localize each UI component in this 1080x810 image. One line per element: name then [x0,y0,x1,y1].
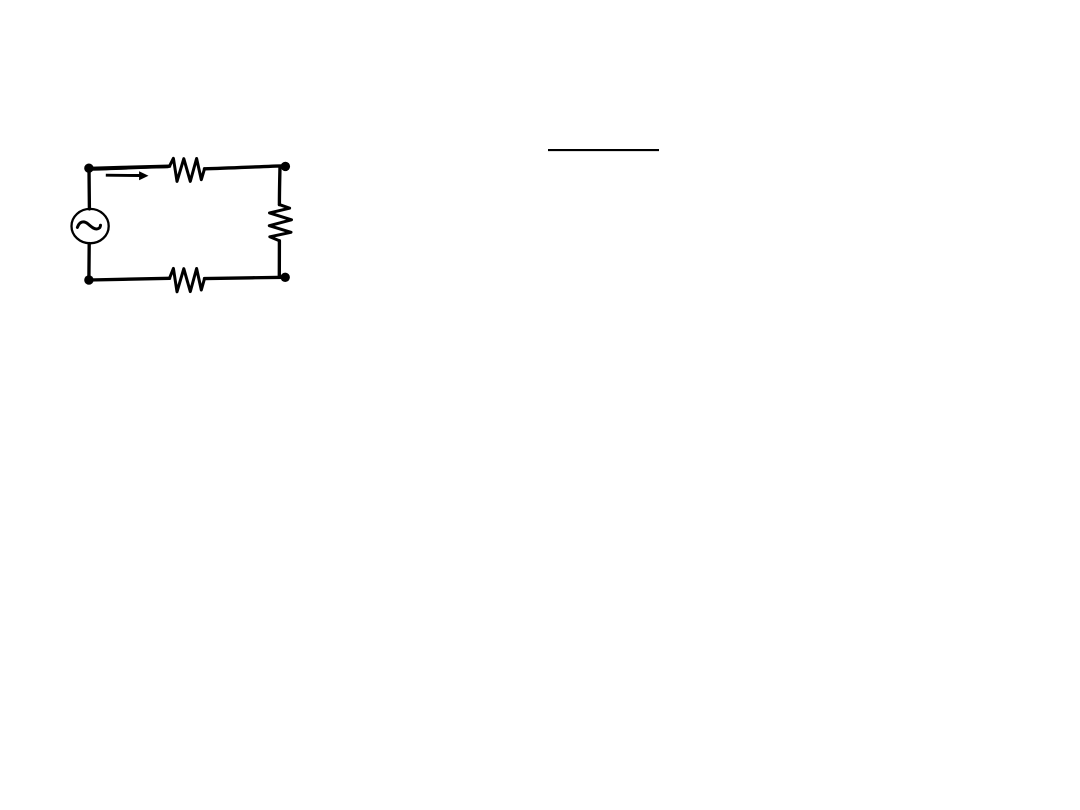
node A (top-left) [84,164,93,173]
resistor R2 (right vertical) [269,205,291,241]
node C (bottom-right) [281,273,290,282]
wire right vertical lower segment [278,241,281,277]
resistor R1 (top) [170,158,205,181]
wire bottom-left horizontal segment [89,278,169,280]
wire top-right horizontal segment [205,166,286,169]
wire source top lead [87,168,91,209]
wire top-left horizontal segment [89,166,170,168]
resistor R3 (bottom) [170,268,205,291]
arrow current direction I [106,174,140,177]
source V1 sine tilde [77,222,100,229]
wire right vertical upper segment [278,167,282,205]
standalone horizontal line (answer blank) [548,149,659,151]
wire source bottom lead [87,244,91,280]
node B (top-right) [281,162,290,171]
node D (bottom-left) [84,275,93,284]
wire bottom-right horizontal segment [205,277,286,278]
source V1 (AC) circle [72,209,109,243]
